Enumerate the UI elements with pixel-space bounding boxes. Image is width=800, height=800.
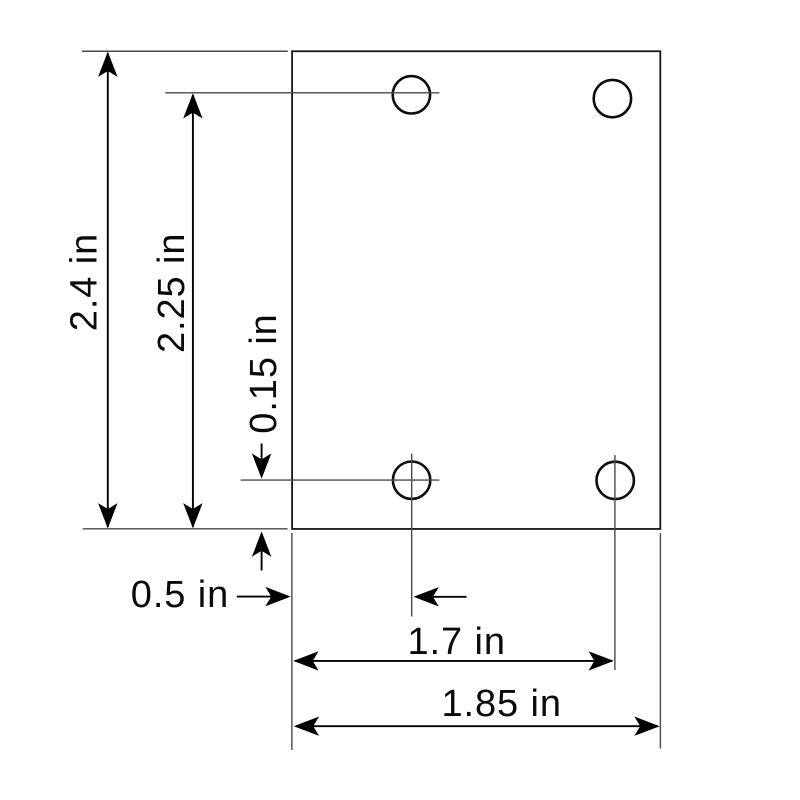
extension line: bottom hole centerline <box>241 479 440 481</box>
dimension 0.15 in arrowhead down <box>252 454 271 479</box>
dimension 2.4 in arrowhead down <box>98 503 117 528</box>
svg-text:2.4 in: 2.4 in <box>64 233 106 331</box>
dimension 0.15 in upper shaft <box>261 444 263 475</box>
svg-text:0.5 in: 0.5 in <box>131 574 229 616</box>
dimension 2.25 in shaft <box>192 95 194 527</box>
dimension 2.4 in arrowhead up <box>98 52 117 77</box>
dimension 2.4 in shaft <box>107 53 109 527</box>
extension line: plate bottom level <box>83 528 288 530</box>
extension line: bottom-right hole vertical <box>614 455 616 670</box>
dimension 0.15 in arrowhead up <box>252 531 271 556</box>
dimension 1.85 in arrowhead right <box>634 717 659 736</box>
dimension 1.7 in arrowhead right <box>589 651 614 670</box>
hole bottom-right <box>597 462 634 499</box>
extension line: left edge below plate <box>291 533 293 750</box>
svg-text:2.25 in: 2.25 in <box>151 233 193 353</box>
hole top-left <box>393 76 430 113</box>
plate outline <box>292 51 660 529</box>
hole bottom-left <box>393 462 430 499</box>
dimension 1.85 in arrowhead left <box>294 717 319 736</box>
extension line: right edge below plate <box>659 533 661 749</box>
dimension 1.7 in arrowhead left <box>293 651 318 670</box>
dimension 1.85 in shaft <box>296 725 658 727</box>
hole top-right <box>594 80 631 117</box>
dimension 0.5 in shaft <box>237 596 286 598</box>
svg-text:0.15 in: 0.15 in <box>243 313 285 433</box>
dimension 2.25 in arrowhead up <box>183 93 202 118</box>
dimension 1.7 in shaft <box>295 660 612 662</box>
dimension 2.25 in arrowhead down <box>183 503 202 528</box>
svg-text:1.85 in: 1.85 in <box>442 683 562 725</box>
dimension 0.5 in partner shaft <box>418 596 467 598</box>
extension line: bottom-left hole vertical <box>411 454 413 617</box>
dimension 0.5 in arrowhead right <box>265 587 290 606</box>
extension line: plate top level <box>82 50 288 52</box>
svg-text:1.7 in: 1.7 in <box>408 621 506 663</box>
dimension 0.15 in lower shaft <box>261 536 263 571</box>
extension line: top hole centerline <box>165 92 439 94</box>
dimension 0.5 in partner arrowhead left <box>414 587 439 606</box>
